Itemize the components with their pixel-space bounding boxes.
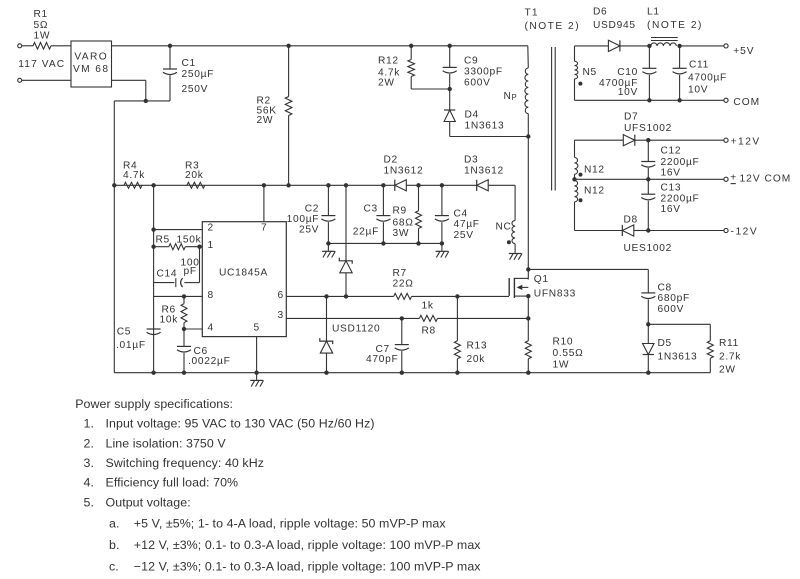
svg-text:R7: R7 bbox=[393, 268, 407, 279]
wire bbox=[528, 268, 648, 270]
svg-text:470pF: 470pF bbox=[366, 354, 398, 365]
wire bbox=[680, 45, 724, 47]
svg-text:C9: C9 bbox=[464, 55, 478, 66]
wire bbox=[153, 185, 155, 372]
wire bbox=[635, 139, 648, 141]
svg-text:2200µF: 2200µF bbox=[661, 157, 700, 168]
resistor R7 bbox=[394, 293, 412, 299]
svg-text:+5 V, ±5%; 1- to 4-A load, rip: +5 V, ±5%; 1- to 4-A load, ripple voltag… bbox=[134, 517, 447, 531]
node junction bbox=[400, 371, 404, 375]
svg-text:20k: 20k bbox=[467, 354, 486, 365]
node junction bbox=[455, 371, 459, 375]
capacitor C14 bbox=[175, 278, 177, 287]
node junction snubber tap bbox=[526, 267, 530, 271]
inductor L1 bbox=[651, 43, 677, 46]
svg-text:150k: 150k bbox=[177, 234, 202, 245]
node junction C13 bbox=[646, 177, 650, 181]
wire bbox=[620, 45, 649, 47]
svg-text:UFN833: UFN833 bbox=[534, 289, 576, 300]
wire pin 4 bbox=[184, 328, 202, 330]
wire pin 3 bbox=[286, 317, 419, 319]
node junction C7 bbox=[400, 316, 404, 320]
svg-text:C10: C10 bbox=[617, 67, 638, 78]
svg-text:3.: 3. bbox=[84, 456, 95, 470]
svg-text:1W: 1W bbox=[553, 360, 570, 371]
capacitor C6 bbox=[183, 329, 185, 346]
svg-text:C4: C4 bbox=[454, 208, 468, 219]
transformer T1 primary winding Np bbox=[527, 46, 530, 68]
wire 12V common bbox=[575, 178, 724, 180]
svg-text:25V: 25V bbox=[299, 224, 319, 235]
node junction gate divider bbox=[455, 294, 459, 298]
svg-text:1N3612: 1N3612 bbox=[464, 165, 504, 176]
svg-text:3300pF: 3300pF bbox=[464, 66, 503, 77]
svg-text:+5V: +5V bbox=[733, 46, 754, 57]
svg-text:Q1: Q1 bbox=[534, 274, 549, 285]
wire bbox=[648, 139, 724, 141]
node AC input terminal top bbox=[18, 44, 22, 48]
svg-text:VARO: VARO bbox=[74, 51, 108, 62]
node junction bbox=[151, 227, 155, 231]
wire aux ground bus bbox=[328, 242, 442, 244]
svg-text:4.: 4. bbox=[84, 476, 95, 490]
svg-text:C3: C3 bbox=[364, 204, 378, 215]
svg-text:R1: R1 bbox=[34, 9, 48, 20]
svg-text:10k: 10k bbox=[160, 315, 179, 326]
svg-text:C13: C13 bbox=[661, 182, 682, 193]
svg-text:117 VAC: 117 VAC bbox=[18, 59, 65, 70]
svg-text:1: 1 bbox=[208, 240, 214, 251]
capacitor C11 bbox=[679, 46, 681, 68]
transistor Q1 UFN833 bbox=[508, 278, 510, 296]
svg-text:2200µF: 2200µF bbox=[661, 194, 700, 205]
transformer T1 core bbox=[551, 47, 553, 191]
svg-text:R13: R13 bbox=[467, 340, 488, 351]
ground bbox=[441, 243, 443, 250]
svg-text:4.7k: 4.7k bbox=[123, 170, 145, 181]
resistor R5 bbox=[169, 244, 186, 250]
node junction zener top bbox=[344, 183, 348, 187]
node junction R9 bottom bbox=[416, 241, 420, 245]
node junction L1 right bbox=[677, 44, 681, 48]
svg-text:+12V: +12V bbox=[731, 136, 761, 147]
svg-text:2W: 2W bbox=[257, 115, 274, 126]
capacitor C12 bbox=[647, 140, 649, 161]
svg-text:12V: 12V bbox=[740, 174, 761, 185]
resistor R1 bbox=[33, 43, 51, 50]
ground bbox=[256, 373, 258, 380]
capacitor C8 bbox=[641, 292, 655, 294]
resistor R12 bbox=[410, 46, 412, 60]
svg-text:8: 8 bbox=[208, 290, 214, 301]
transformer T1 secondary winding N12 upper bbox=[574, 140, 576, 157]
svg-text:C12: C12 bbox=[661, 146, 682, 157]
wire bbox=[114, 100, 170, 102]
node junction C2 bbox=[326, 183, 330, 187]
wire COM rail bbox=[575, 99, 724, 101]
svg-text:T1: T1 bbox=[525, 7, 539, 18]
svg-text:R9: R9 bbox=[393, 206, 407, 217]
svg-text:7: 7 bbox=[261, 223, 267, 234]
svg-text:L1: L1 bbox=[647, 7, 660, 18]
node junction C2 bottom bbox=[326, 241, 330, 245]
node N12 upper phase dot bbox=[579, 173, 583, 177]
wire ground rail bbox=[114, 372, 648, 374]
node junction bbox=[254, 371, 258, 375]
wire bbox=[575, 45, 609, 47]
svg-text:10V: 10V bbox=[688, 84, 708, 95]
node junction C4 bottom bbox=[440, 241, 444, 245]
svg-text:3: 3 bbox=[278, 310, 284, 321]
capacitor C1 bbox=[169, 46, 171, 69]
inductor L1 core bbox=[651, 37, 678, 39]
svg-text:68Ω: 68Ω bbox=[393, 217, 414, 228]
node +5V terminal bbox=[724, 44, 728, 48]
svg-text:.01µF: .01µF bbox=[116, 340, 146, 351]
node junction C3 bbox=[381, 183, 385, 187]
svg-text:5: 5 bbox=[254, 323, 260, 334]
svg-text:C1: C1 bbox=[182, 58, 196, 69]
resistor R13 bbox=[456, 296, 458, 340]
resistor R11 bbox=[707, 341, 713, 358]
wire bbox=[51, 45, 71, 47]
svg-text:6: 6 bbox=[278, 290, 284, 301]
svg-text:R10: R10 bbox=[553, 336, 574, 347]
node junction C9-D4 bbox=[448, 87, 452, 91]
svg-text:.0022µF: .0022µF bbox=[188, 356, 231, 367]
diode D6 bbox=[608, 40, 620, 51]
svg-text:a.: a. bbox=[109, 517, 120, 531]
node junction primary-drain bbox=[526, 134, 530, 138]
svg-text:D7: D7 bbox=[624, 111, 638, 122]
transformer T1 secondary winding N5 bbox=[574, 46, 576, 61]
ground bbox=[327, 243, 329, 250]
svg-text:1k: 1k bbox=[422, 301, 434, 312]
wire bbox=[648, 323, 710, 325]
capacitor C4 bbox=[441, 185, 443, 215]
svg-text:2W: 2W bbox=[378, 77, 395, 88]
node junction bbox=[151, 245, 155, 249]
svg-text:+: + bbox=[730, 172, 737, 183]
svg-text:22Ω: 22Ω bbox=[393, 279, 414, 290]
node junction bbox=[526, 316, 530, 320]
svg-text:Output voltage:: Output voltage: bbox=[106, 495, 191, 509]
wire bbox=[634, 230, 648, 232]
svg-text:2W: 2W bbox=[719, 364, 736, 375]
svg-text:USD1120: USD1120 bbox=[332, 324, 380, 335]
svg-text:22µF: 22µF bbox=[353, 227, 379, 238]
svg-text:100µF: 100µF bbox=[287, 214, 320, 225]
transformer T1 secondary winding N12 lower bbox=[575, 181, 578, 202]
svg-text:C2: C2 bbox=[305, 204, 319, 215]
node junction C11 bbox=[677, 98, 681, 102]
svg-text:USD945: USD945 bbox=[593, 20, 636, 31]
wire bbox=[22, 79, 71, 81]
diode D3 bbox=[477, 180, 489, 191]
diode D5 bbox=[647, 324, 649, 343]
capacitor C13 bbox=[647, 179, 649, 194]
resistor R4 bbox=[124, 182, 142, 188]
svg-text:Efficiency full load: 70%: Efficiency full load: 70% bbox=[106, 476, 239, 490]
svg-text:P: P bbox=[512, 93, 518, 102]
svg-text:UES1002: UES1002 bbox=[624, 243, 673, 254]
node junction bbox=[112, 183, 116, 187]
svg-text:−12 V, ±3%; 0.1- to 0.3-A load: −12 V, ±3%; 0.1- to 0.3-A load, ripple v… bbox=[134, 560, 481, 574]
svg-text:1N3613: 1N3613 bbox=[658, 352, 698, 363]
node junction bbox=[646, 371, 650, 375]
svg-text:D3: D3 bbox=[464, 155, 478, 166]
node junction bbox=[324, 371, 328, 375]
svg-text:C5: C5 bbox=[117, 326, 131, 337]
svg-text:47µF: 47µF bbox=[454, 219, 480, 230]
node AC input terminal bottom bbox=[18, 78, 22, 82]
svg-text:4: 4 bbox=[208, 323, 214, 334]
node junction pin7 tap bbox=[262, 183, 266, 187]
svg-text:10V: 10V bbox=[618, 87, 638, 98]
diode D4 bbox=[444, 110, 455, 122]
svg-text:(NOTE 2): (NOTE 2) bbox=[525, 21, 581, 32]
wire bbox=[575, 230, 623, 232]
wire pin 2 bbox=[154, 229, 203, 231]
svg-text:5.: 5. bbox=[84, 495, 95, 509]
svg-text:C8: C8 bbox=[658, 283, 672, 294]
node junction bbox=[324, 294, 328, 298]
svg-text:R5: R5 bbox=[156, 234, 170, 245]
svg-text:4700µF: 4700µF bbox=[688, 72, 727, 83]
svg-text:600V: 600V bbox=[464, 77, 491, 88]
svg-text:D4: D4 bbox=[465, 109, 479, 120]
svg-text:D8: D8 bbox=[624, 214, 638, 225]
svg-text:N12: N12 bbox=[584, 164, 605, 175]
node -12V terminal bbox=[724, 228, 728, 232]
capacitor C2 bbox=[327, 185, 329, 215]
node junction C4 bbox=[440, 183, 444, 187]
svg-text:D2: D2 bbox=[384, 155, 398, 166]
node junction bbox=[182, 371, 186, 375]
wire drain bbox=[527, 137, 529, 280]
wire bbox=[575, 139, 624, 141]
wire pin 7 bbox=[263, 185, 265, 221]
svg-text:COM: COM bbox=[733, 97, 760, 108]
wire bbox=[112, 79, 146, 81]
wire pin 6 output bbox=[286, 295, 393, 297]
diode zener USD1120 bbox=[326, 296, 328, 341]
ground bbox=[509, 253, 522, 255]
node NC phase dot bbox=[507, 240, 511, 244]
node junction R2 bottom bbox=[286, 183, 290, 187]
svg-text:(NOTE 2): (NOTE 2) bbox=[647, 20, 703, 31]
resistor R8 bbox=[419, 315, 437, 321]
resistor R6 bbox=[183, 296, 185, 303]
svg-text:N5: N5 bbox=[583, 67, 597, 78]
svg-text:C14: C14 bbox=[157, 268, 178, 279]
resistor R2 bbox=[288, 46, 290, 97]
svg-text:COM: COM bbox=[765, 174, 792, 185]
svg-text:2.7k: 2.7k bbox=[719, 352, 741, 363]
node junction C12 bbox=[646, 138, 650, 142]
svg-text:D5: D5 bbox=[658, 338, 672, 349]
node junction L1 left bbox=[647, 44, 651, 48]
node junction C3 bottom bbox=[381, 241, 385, 245]
svg-text:1N3613: 1N3613 bbox=[465, 120, 505, 131]
svg-text:3W: 3W bbox=[393, 228, 410, 239]
bridge rectifier VARO VM 68 bbox=[71, 41, 112, 87]
svg-text:Line isolation: 3750 V: Line isolation: 3750 V bbox=[106, 436, 227, 450]
svg-text:Switching frequency: 40 kHz: Switching frequency: 40 kHz bbox=[106, 456, 265, 470]
svg-text:680pF: 680pF bbox=[658, 293, 690, 304]
node 12V COM terminal bbox=[724, 177, 728, 181]
resistor R10 bbox=[525, 341, 531, 359]
svg-text:N: N bbox=[504, 91, 512, 102]
svg-text:25V: 25V bbox=[454, 230, 474, 241]
svg-text:UC1845A: UC1845A bbox=[219, 267, 268, 278]
svg-text:1W: 1W bbox=[34, 31, 51, 42]
wire pin 8 bbox=[154, 295, 203, 297]
capacitor C9 bbox=[449, 46, 451, 68]
wire Vcc rail bbox=[114, 184, 395, 186]
node junction bbox=[526, 371, 530, 375]
svg-text:0.55Ω: 0.55Ω bbox=[553, 348, 584, 359]
svg-text:600V: 600V bbox=[658, 304, 685, 315]
node junction R12 bbox=[409, 44, 413, 48]
node COM terminal bbox=[724, 98, 728, 102]
node junction bbox=[182, 327, 186, 331]
svg-text:1.: 1. bbox=[84, 417, 95, 431]
diode zener bbox=[345, 185, 347, 260]
svg-text:Input voltage: 95 VAC to 130 V: Input voltage: 95 VAC to 130 VAC (50 Hz/… bbox=[106, 417, 375, 431]
svg-text:20k: 20k bbox=[185, 170, 204, 181]
svg-text:250µF: 250µF bbox=[182, 69, 215, 80]
wire left return rail bbox=[113, 101, 115, 373]
svg-text:Power supply specifications:: Power supply specifications: bbox=[75, 397, 233, 411]
svg-text:1N3612: 1N3612 bbox=[384, 165, 424, 176]
svg-text:C11: C11 bbox=[689, 59, 709, 70]
node junction R9 bbox=[416, 183, 420, 187]
svg-text:N12: N12 bbox=[584, 185, 605, 196]
svg-text:2: 2 bbox=[208, 223, 214, 234]
node junction bbox=[144, 99, 148, 103]
svg-text:R8: R8 bbox=[422, 326, 436, 337]
diode D2 bbox=[395, 180, 407, 191]
node N12 lower phase dot bbox=[579, 198, 583, 202]
node center tap junction bbox=[572, 177, 576, 181]
svg-text:5Ω: 5Ω bbox=[34, 20, 49, 31]
svg-text:NC: NC bbox=[496, 222, 512, 233]
svg-text:c.: c. bbox=[109, 560, 119, 574]
wire bbox=[488, 184, 515, 186]
svg-text:R11: R11 bbox=[719, 338, 739, 349]
resistor R9 bbox=[418, 185, 420, 211]
capacitor C10 bbox=[648, 46, 650, 68]
diode D7 bbox=[623, 135, 635, 146]
node +12V terminal bbox=[724, 138, 728, 142]
svg-text:b.: b. bbox=[109, 538, 120, 552]
svg-text:UFS1002: UFS1002 bbox=[624, 123, 672, 134]
diode D8 bbox=[622, 225, 634, 236]
wire bbox=[406, 184, 476, 186]
op-amp U1 UC1845A box bbox=[202, 222, 286, 337]
node junction zener bottom bbox=[344, 294, 348, 298]
wire pin 1 bbox=[154, 246, 169, 248]
svg-text:D6: D6 bbox=[593, 7, 607, 18]
node N5 phase dot bbox=[578, 82, 582, 86]
resistor R3 bbox=[187, 182, 205, 188]
node junction pin1 bbox=[197, 245, 201, 249]
svg-text:pF: pF bbox=[184, 266, 197, 277]
node junction bbox=[182, 294, 186, 298]
node junction R2 bbox=[286, 44, 290, 48]
capacitor C5 bbox=[147, 328, 161, 330]
transformer T1 winding NC bbox=[514, 185, 516, 220]
node junction bbox=[646, 228, 650, 232]
node junction source bbox=[526, 294, 530, 298]
svg-text:R12: R12 bbox=[378, 55, 399, 66]
node junction bbox=[646, 322, 650, 326]
wire HV+ rail bbox=[112, 45, 528, 47]
capacitor C7 bbox=[401, 318, 403, 344]
capacitor C3 bbox=[382, 185, 384, 215]
svg-text:-12V: -12V bbox=[731, 227, 759, 238]
node junction C1 bbox=[168, 44, 172, 48]
wire pin 5 bbox=[256, 337, 258, 373]
node junction C10 bbox=[647, 98, 651, 102]
wire bbox=[22, 45, 34, 47]
node junction bbox=[151, 183, 155, 187]
svg-text:250V: 250V bbox=[182, 84, 209, 95]
wire bbox=[648, 230, 724, 232]
svg-text:+12 V, ±3%; 0.1- to 0.3-A load: +12 V, ±3%; 0.1- to 0.3-A load, ripple v… bbox=[134, 538, 481, 552]
svg-text:16V: 16V bbox=[661, 167, 681, 178]
svg-text:2.: 2. bbox=[84, 436, 95, 450]
wire source to R10 bbox=[527, 296, 529, 341]
svg-text:16V: 16V bbox=[661, 204, 681, 215]
node junction bbox=[151, 371, 155, 375]
svg-text:VM 68: VM 68 bbox=[73, 64, 109, 75]
wire bbox=[199, 247, 201, 283]
node junction C9 bbox=[448, 44, 452, 48]
